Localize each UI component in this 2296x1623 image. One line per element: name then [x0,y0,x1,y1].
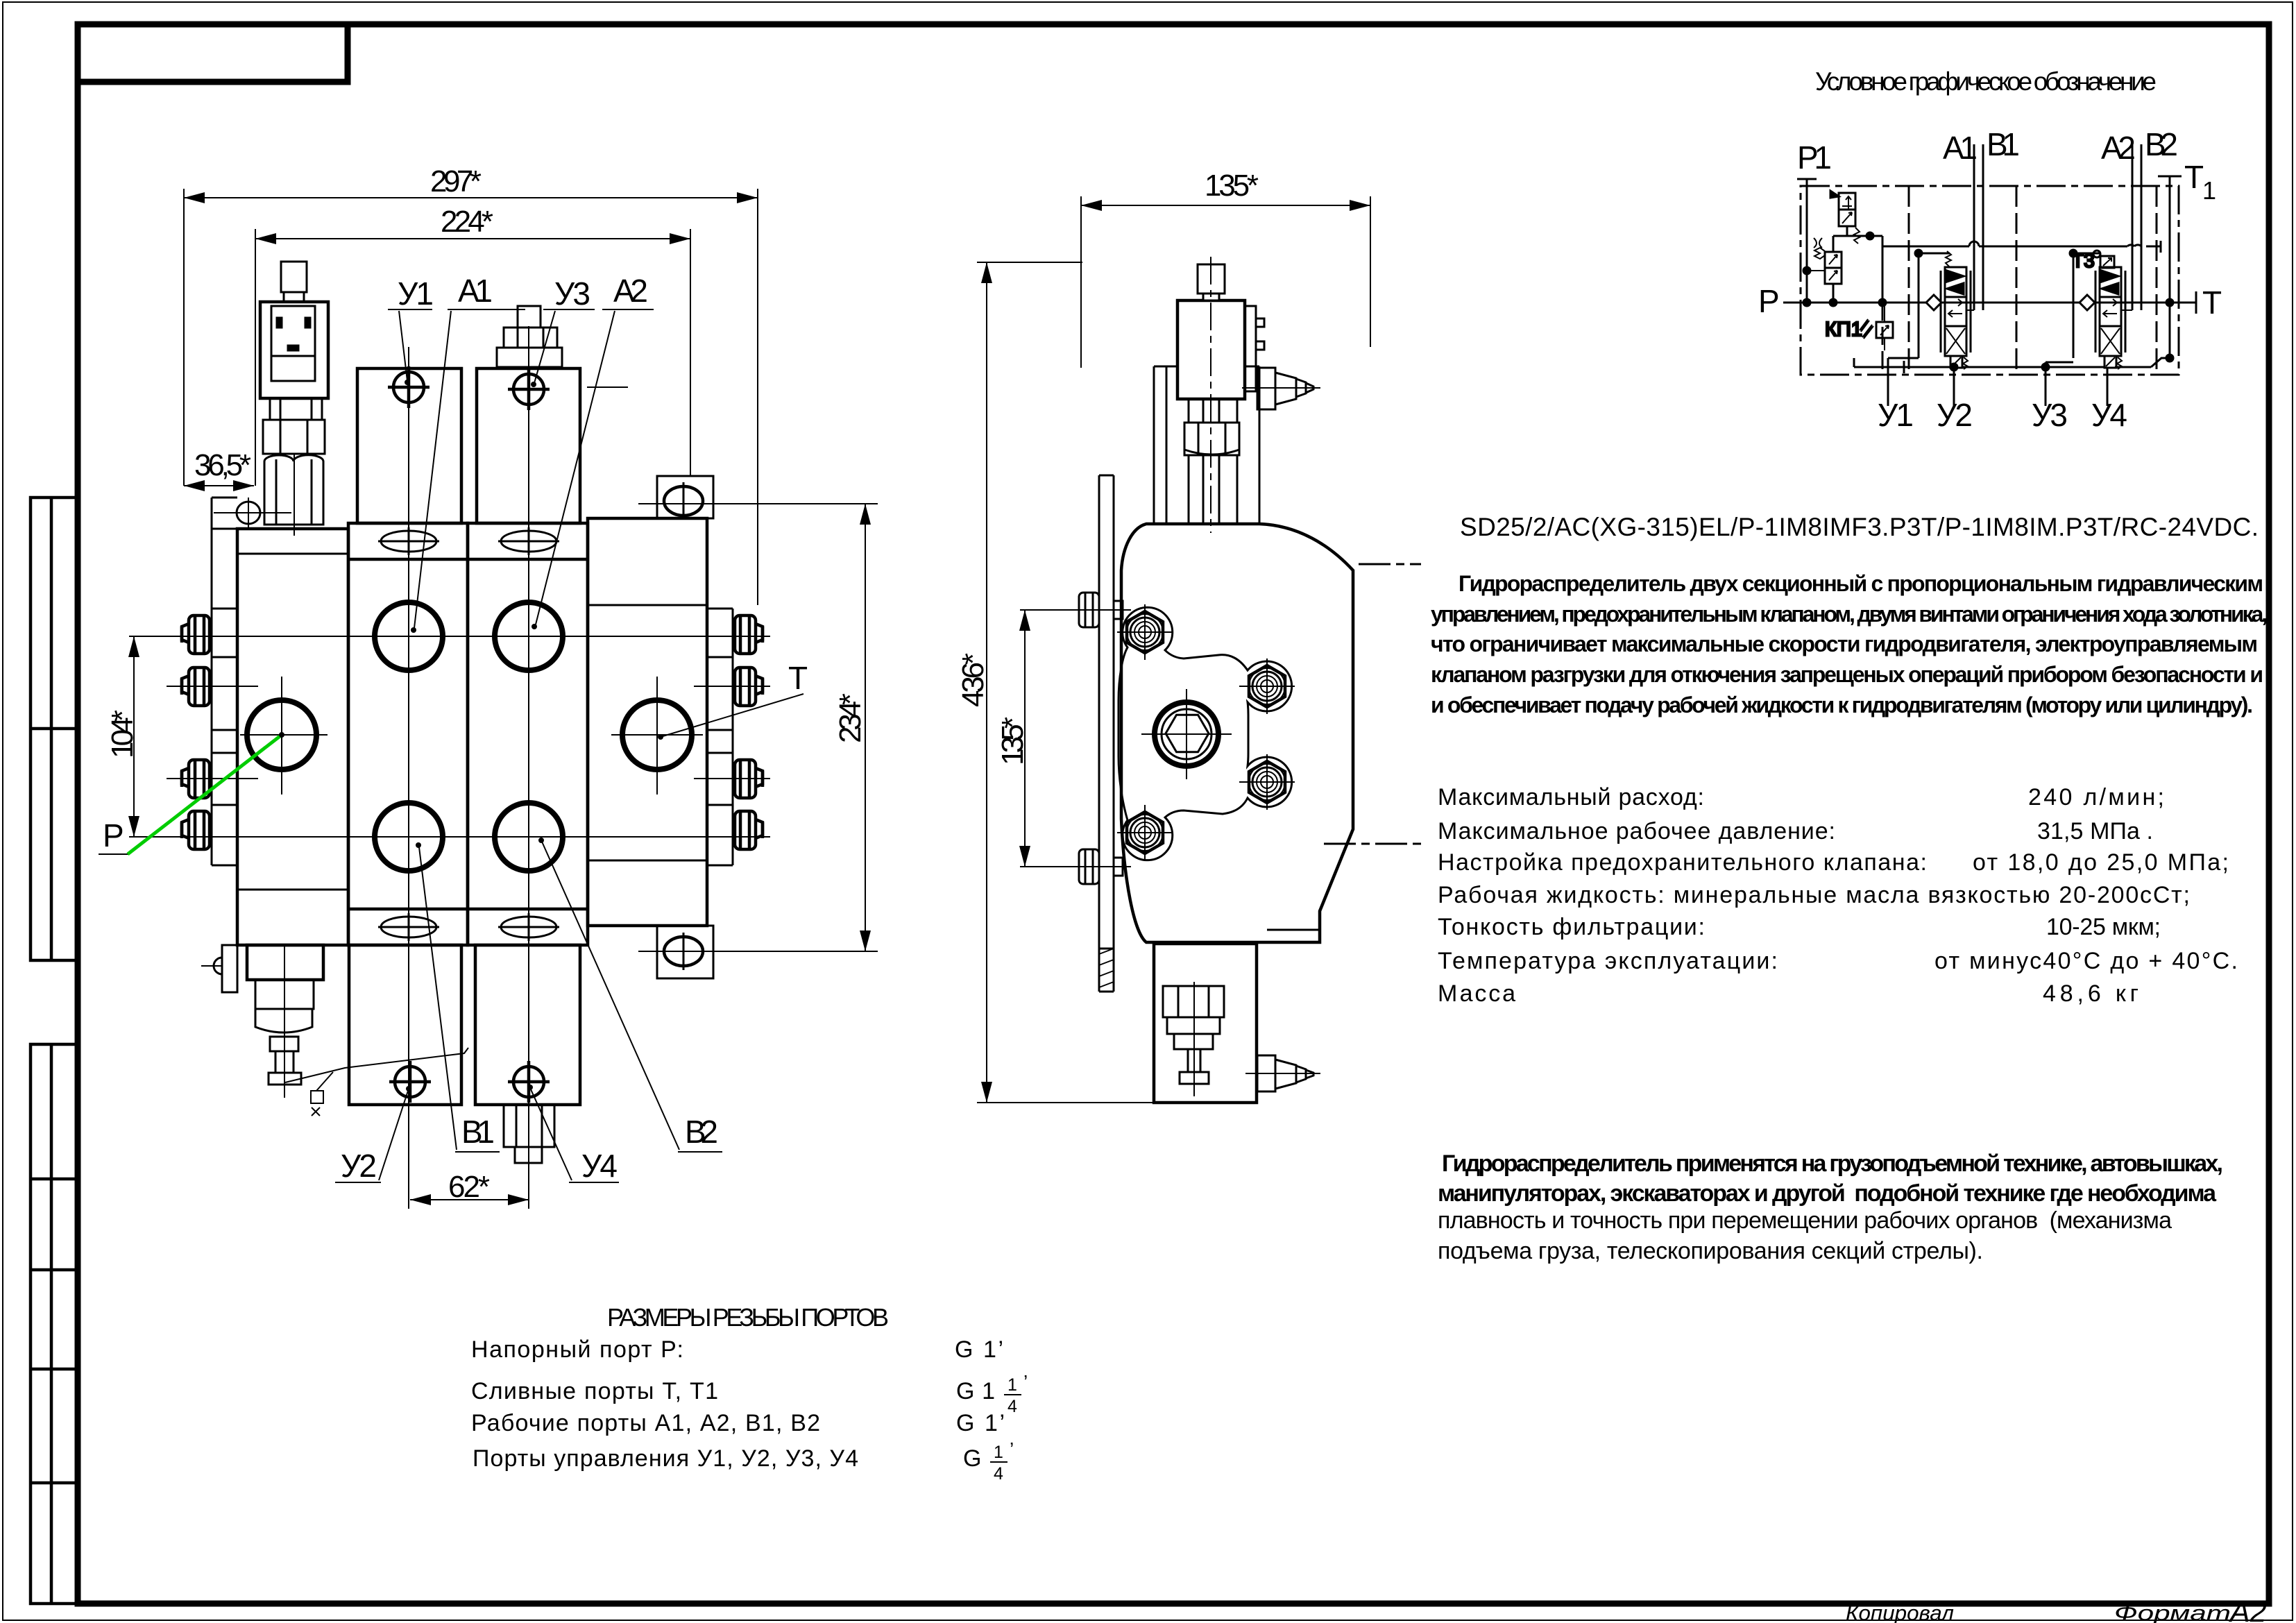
svg-text:У4: У4 [2091,397,2127,433]
plate bolt lower [1069,849,1131,884]
svg-text:У4: У4 [581,1148,618,1184]
port circle P [247,700,316,770]
port circle B1 [375,803,443,871]
solenoid (side) [1177,264,1264,399]
centerline row A1-A2 [129,636,770,637]
svg-text:от 18,0 до 25,0 МПа;: от 18,0 до 25,0 МПа; [1973,849,2229,876]
socket bolt TL [1117,604,1173,660]
svg-text:от минус40°С до + 40°С.: от минус40°С до + 40°С. [1934,948,2238,974]
label P with green leader [99,732,284,854]
bottom cap [1154,944,1257,1103]
left flange plate [212,498,237,865]
svg-text:Температура эксплуатации:: Температура эксплуатации: [1438,948,1778,974]
dim 62 [410,1170,529,1205]
title block top-left [78,24,348,82]
seal wire leader [285,1048,468,1116]
port P1 [1797,139,1832,303]
grease fitting top [1242,368,1320,409]
svg-text:4: 4 [994,1464,1003,1484]
svg-text:Максимальный расход:: Максимальный расход: [1438,784,1704,810]
left column boxes group 1 [31,498,77,960]
svg-text:62*: 62* [448,1170,490,1204]
rod hex coupler [1184,423,1239,455]
svg-text:B2: B2 [2145,126,2178,162]
svg-text:У3: У3 [2032,397,2068,433]
dim 224 [255,205,690,486]
section divider 1 [1908,186,1910,375]
centerline row B1-B2 [129,836,770,838]
svg-text:У2: У2 [341,1148,377,1184]
svg-text:У3: У3 [554,275,590,312]
section divider 2 [2016,186,2018,375]
svg-text:и обеспечивает подачу рабочей: и обеспечивает подачу рабочей жидкости к… [1431,692,2253,717]
svg-text:Формат: Формат [2114,1601,2231,1623]
svg-text:T: T [2184,159,2204,195]
svg-text:36,5*: 36,5* [194,448,251,482]
svg-text:234*: 234* [833,693,867,743]
bolt row centerlines [167,686,258,687]
label Y4 [527,1085,619,1184]
description paragraph [1431,571,2268,717]
svg-text:G 1’: G 1’ [955,1336,1003,1363]
svg-text:что ограничивает максимальные: что ограничивает максимальные скорости г… [1431,631,2258,656]
svg-text:G 1: G 1 [956,1378,995,1404]
svg-text:’: ’ [1010,1438,1014,1460]
specification list [1438,784,2238,1007]
top plate screw ellipse 2 [498,527,559,555]
dim 36,5 [184,448,254,491]
top sub-block 2 [477,368,580,523]
SCHEMATIC [1758,67,2222,433]
pilot port lines Y1-Y4 [1854,299,2173,406]
hydraulic block boundary (dash-dot frame) [1801,186,2179,375]
svg-text:10-25 мкм;: 10-25 мкм; [2046,914,2161,940]
svg-text:Максимальное рабочее давление:: Максимальное рабочее давление: [1438,818,1835,844]
label Y1 [388,275,434,385]
top plate screw ellipse 1 [378,527,439,555]
plate bolt upper [1069,593,1131,627]
application paragraph [1438,1150,2223,1264]
svg-text:1: 1 [1007,1375,1017,1395]
svg-text:’: ’ [1023,1371,1028,1393]
dim 436 [956,262,1153,1103]
stub centerline right of sub-block 2 [587,386,628,388]
svg-text:Рабочие порты А1, А2, В1, В2: Рабочие порты А1, А2, В1, В2 [471,1410,820,1436]
port circle A1 [375,602,443,670]
svg-text:Копировал: Копировал [1846,1601,1954,1623]
stroke limiter nut on sub-block 2 [497,306,562,367]
svg-text:A2: A2 [2101,130,2136,166]
svg-text:A1: A1 [1943,130,1978,166]
port T1 terminal [2158,159,2216,358]
pilot loop section 1 [1915,250,1974,358]
svg-text:1: 1 [994,1443,1003,1462]
label Y3 [531,275,595,387]
svg-text:Тонкость фильтрации:: Тонкость фильтрации: [1438,914,1705,940]
svg-text:Гидрораспределитель применятся: Гидрораспределитель применятся на грузоп… [1442,1150,2223,1177]
svg-text:T: T [2202,284,2222,321]
svg-text:436*: 436* [956,653,990,707]
svg-text:240 л/мин;: 240 л/мин; [2028,784,2164,810]
svg-text:подъема груза, телескопировани: подъема груза, телескопирования секций с… [1438,1238,1983,1264]
solenoid centerline [1210,257,1211,533]
svg-text:A2: A2 [613,273,648,309]
svg-text:клапаном разгрузки для откючен: клапаном разгрузки для откючения запреще… [1431,662,2263,687]
ports A2 B2 [2101,126,2178,310]
svg-text:P: P [103,817,124,853]
svg-text:1: 1 [2202,176,2216,205]
svg-text:У1: У1 [398,275,434,312]
port circle A2 [495,602,563,670]
connection unloader to compensator [1803,226,1882,306]
ports A1 B1 [1943,126,2020,310]
section vertical centerlines [408,347,409,1209]
SIDE VIEW [956,169,1421,1103]
label B1 [416,842,500,1152]
dim 135 left [996,610,1072,867]
check valve section 2 [2073,295,2095,310]
svg-text:У1: У1 [1878,397,1914,433]
left mounting bolts [182,615,210,849]
svg-text:224*: 224* [441,205,493,239]
svg-text:Порты управления У1, У2, У3, У: Порты управления У1, У2, У3, У4 [473,1445,858,1472]
bottom pilot cap 2 [475,945,580,1105]
right mounting bolts [735,615,763,849]
TEXT BLOCKS [471,513,2268,1623]
bottom plate screw ellipse 2 [498,913,559,941]
port P line [1758,283,2196,319]
bottom plate screw ellipse 1 [378,913,439,941]
dim 297 [184,164,758,605]
bottom-left lug with boss [201,945,237,992]
label Y2 [335,1086,411,1184]
svg-text:плавность и точность при перем: плавность и точность при перемещении раб… [1438,1207,2172,1234]
svg-text:манипуляторах, экскаваторах и: манипуляторах, экскаваторах и другой под… [1438,1180,2217,1207]
svg-text:B2: B2 [685,1114,718,1150]
check valve section 1 [1919,295,1941,310]
top sub-block 1 [357,368,461,523]
svg-text:Условное графическое обозначен: Условное графическое обозначение [1815,67,2157,96]
relief valve adjuster under P section [247,945,323,1098]
socket bolt RU [1239,658,1295,714]
svg-text:Масса: Масса [1438,980,1515,1007]
socket bolt BL [1117,805,1173,860]
P section body [237,529,348,945]
svg-text:РАЗМЕРЫ РЕЗЬБЫ ПОРТОВ: РАЗМЕРЫ РЕЗЬБЫ ПОРТОВ [607,1303,889,1332]
svg-text:A1: A1 [458,273,493,309]
dim 234 vertical [833,504,871,951]
port thread size table [471,1303,1028,1484]
label A2 [532,273,654,629]
unloading solenoid valve [1830,191,1860,244]
solenoid valve (front) [260,262,328,525]
pilot port circle Y1 [388,366,430,408]
proportional valve section 2 [2095,267,2125,369]
pilot port circle Y3 [508,368,550,410]
svg-text:135*: 135* [1205,169,1259,203]
pilot valve T3 section 2 [2072,250,2114,271]
relief valve KP1 [1825,303,1893,350]
port circle T [622,700,692,770]
svg-text:G 1’: G 1’ [956,1410,1005,1436]
grease fitting bottom [1245,1055,1320,1091]
working section 2 body [468,523,588,945]
body outline [1121,524,1353,942]
compensator valve [1807,238,1842,284]
top-right lug with bolt hole [638,476,878,520]
bottom plate joint [348,908,588,911]
svg-text:B1: B1 [1987,126,2020,162]
top bracket [1154,366,1259,524]
svg-text:297*: 297* [430,164,482,198]
svg-text:P: P [1758,283,1780,319]
svg-text:Гидрораспределитель двух секци: Гидрораспределитель двух секционный с пр… [1459,571,2263,596]
port circle B2 [495,803,563,871]
solenoid rods [1189,399,1237,524]
face contour [1119,607,1292,860]
central hex plug [1141,689,1232,779]
svg-text:управлением, предохранительным: управлением, предохранительным клапаном,… [1431,602,2268,627]
svg-text:T: T [788,660,808,696]
dim 104 vertical [105,636,139,837]
working section 1 body [348,523,468,945]
svg-text:У2: У2 [1937,397,1973,433]
svg-text:B1: B1 [461,1114,495,1150]
svg-text:SD25/2/AC(XG-315)EL/P-1IM8IMF3: SD25/2/AC(XG-315)EL/P-1IM8IMF3.P3T/P-1IM… [1460,513,2259,541]
right clamp plate [707,609,733,865]
section boundary stub [1882,303,1884,375]
unloader drain line to T1 [1879,236,2161,306]
label T [658,660,808,740]
svg-text:А2: А2 [2228,1595,2267,1623]
top plate joint [348,558,588,561]
solenoid centerline front [294,454,295,536]
pilot loop section 2 [2070,250,2132,358]
svg-text:Напорный порт Р:: Напорный порт Р: [471,1336,683,1363]
svg-text:Рабочая жидкость: минеральные: Рабочая жидкость: минеральные масла вязк… [1438,882,2190,908]
top-left screw [214,498,291,528]
section divider 3 [2156,186,2158,375]
svg-text:4: 4 [1007,1397,1017,1416]
socket bolt RL [1239,754,1295,810]
label B2 [538,838,722,1152]
bottom-right lug with bolt hole [638,926,878,978]
svg-text:Сливные порты Т, Т1: Сливные порты Т, Т1 [471,1378,718,1404]
section trace marks [1359,563,1421,566]
pilot port circle Y2 [389,1061,431,1103]
svg-text:P1: P1 [1797,139,1832,176]
mounting plate [1099,475,1114,992]
FRONT VIEW [99,164,878,1209]
svg-text:КП1: КП1 [1825,318,1862,341]
pilot port circle Y4 [508,1061,550,1103]
port T terminal [2196,284,2222,321]
svg-text:31,5 МПа .: 31,5 МПа . [2037,818,2153,844]
svg-text:G: G [963,1445,981,1472]
hex nut under cap 2 [504,1105,554,1163]
svg-text:Настройка предохранительного к: Настройка предохранительного клапана: [1438,849,1927,876]
label A1 [411,273,525,633]
T section body [588,518,707,926]
bottom pilot cap 1 [349,945,461,1105]
proportional valve section 1 [1941,251,1971,369]
dim 135 top [1081,169,1370,368]
left column boxes group 2 [31,1044,77,1604]
centerline row P-T [240,734,328,736]
body bottom step [1267,929,1320,931]
